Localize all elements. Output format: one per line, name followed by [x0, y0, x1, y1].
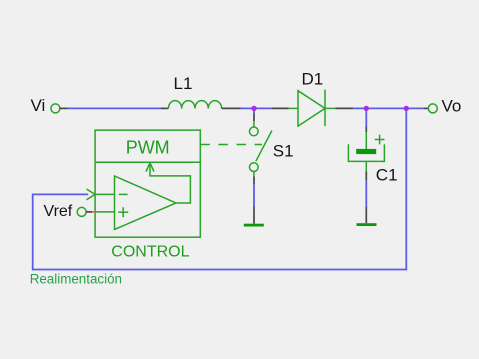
node junction feedback	[404, 106, 409, 111]
arrow feedback into inverting input	[87, 189, 96, 200]
op-amp output path to PWM	[150, 164, 190, 204]
svg-text:L1: L1	[174, 74, 193, 93]
wire non-inverting input inside box	[96, 211, 115, 213]
svg-text:Vi: Vi	[31, 96, 46, 115]
wire C1 to ground	[365, 181, 367, 207]
wire D1 to Vo	[353, 107, 424, 109]
wire Vi to L1	[68, 107, 162, 109]
switch S1	[249, 121, 271, 176]
wire L1 to D1	[241, 107, 273, 109]
control block box	[95, 130, 200, 237]
pin L1 left	[161, 107, 168, 109]
svg-text:Vo: Vo	[442, 97, 462, 116]
node junction S1	[251, 106, 256, 111]
svg-text:Realimentación: Realimentación	[30, 271, 122, 286]
op-amp U1	[115, 176, 177, 230]
wire segment red Vref	[92, 211, 96, 213]
wire feedback Vo to control	[33, 111, 407, 270]
pin L1 right	[222, 107, 241, 109]
diode D1	[289, 90, 336, 127]
svg-text:Vref: Vref	[44, 203, 73, 220]
svg-text:D1: D1	[302, 69, 324, 88]
wire S1 to ground	[253, 184, 255, 206]
pin C1 top	[365, 127, 367, 133]
pin stub Vi	[60, 107, 68, 109]
pin ground lead S1	[253, 207, 255, 224]
pin D1 anode	[272, 107, 289, 109]
capacitor C1	[348, 132, 384, 171]
wire inverting input inside box	[95, 193, 115, 195]
wire junction to C1	[365, 111, 367, 127]
pin S1 top	[253, 114, 255, 122]
terminal Vref	[77, 207, 86, 216]
inductor L1	[168, 101, 221, 109]
pin stub Vref	[86, 211, 92, 213]
pin S1 bottom	[253, 176, 255, 184]
pin ground lead C1	[365, 207, 367, 223]
pin D1 cathode	[336, 107, 354, 109]
node junction C1	[364, 106, 369, 111]
pin stub Vo	[424, 107, 429, 109]
pin C1 bottom	[365, 171, 367, 181]
svg-text:CONTROL: CONTROL	[111, 243, 189, 260]
wire junction to S1	[253, 111, 255, 114]
PWM divider	[95, 161, 200, 163]
terminal Vi	[51, 104, 60, 113]
svg-text:PWM: PWM	[126, 138, 170, 158]
dashed control line PWM to S1	[200, 144, 262, 146]
svg-text:S1: S1	[273, 142, 294, 161]
ground C1	[357, 223, 377, 226]
ground S1	[244, 224, 264, 227]
terminal Vo	[428, 104, 437, 113]
arrow into PWM	[146, 163, 154, 172]
svg-text:C1: C1	[376, 166, 398, 185]
